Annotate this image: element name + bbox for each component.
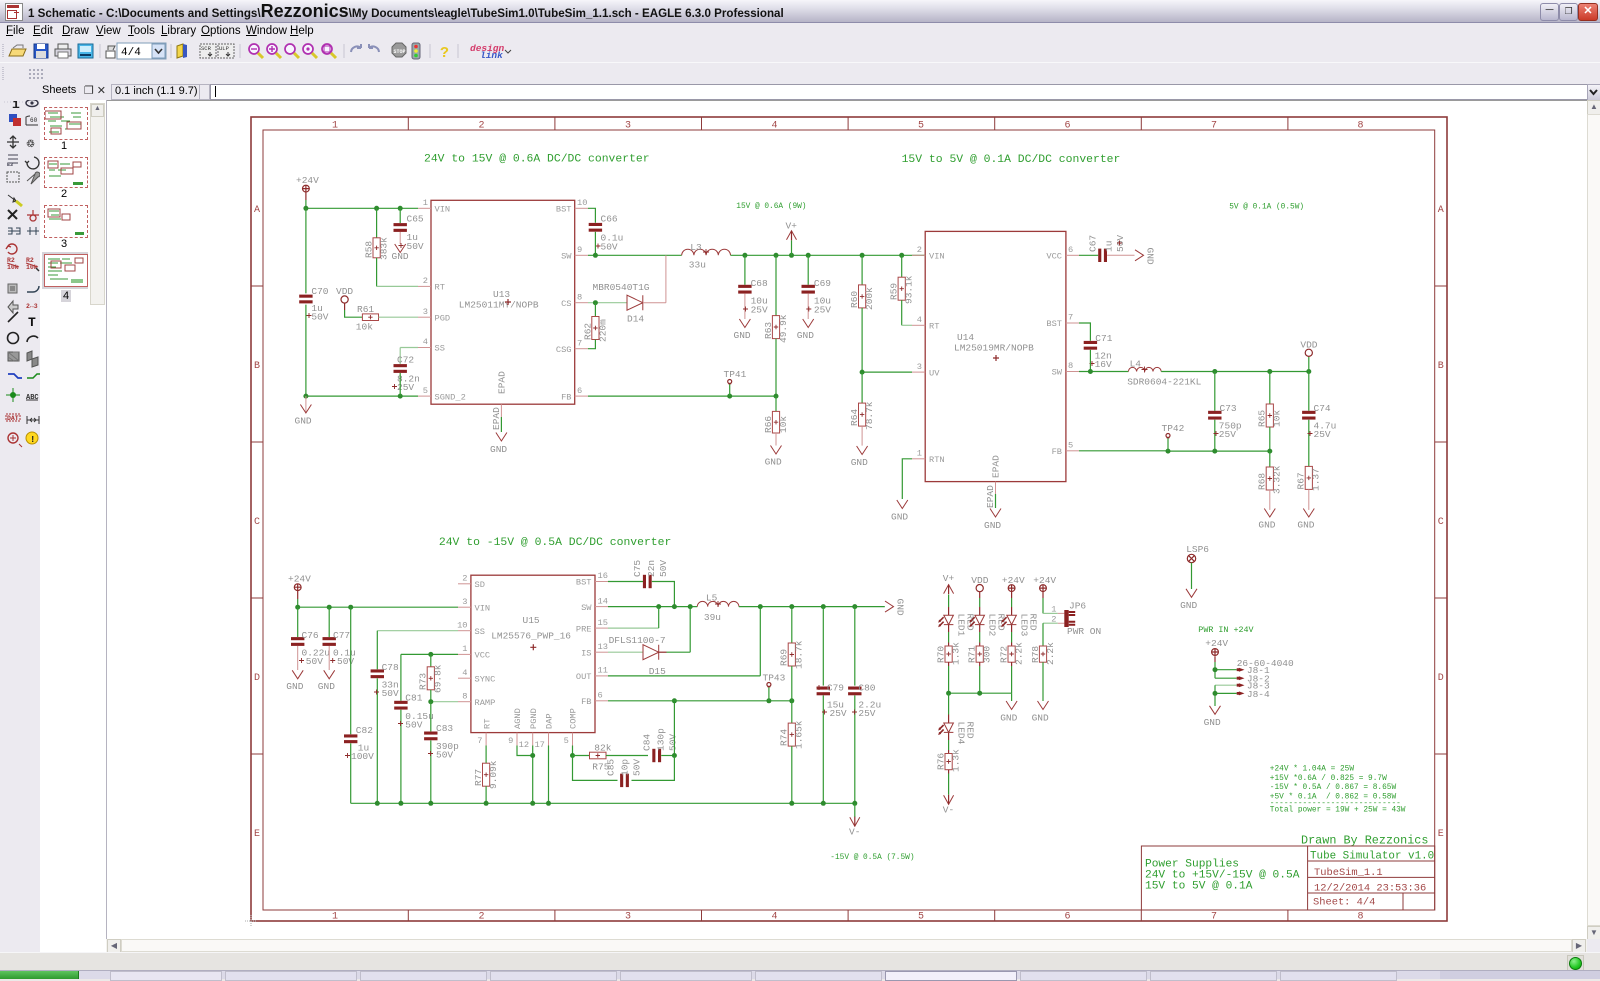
pin 1 VCC (U15): [458, 644, 490, 661]
svg-text:TP43: TP43: [763, 673, 786, 684]
svg-text:12: 12: [519, 740, 529, 750]
svg-text:3.32k: 3.32k: [1272, 465, 1283, 494]
resistor R75: [573, 743, 612, 773]
svg-text:VCC: VCC: [475, 651, 491, 661]
supply V+ (LED1): [943, 573, 955, 607]
svg-text:B: B: [1438, 361, 1444, 372]
wire SW line (U15): [608, 606, 697, 608]
pin 2 SD (U15): [458, 574, 485, 591]
pin 10 SS (U15): [457, 620, 485, 637]
svg-text:EPAD: EPAD: [985, 485, 996, 508]
wire +24V rail: [306, 200, 418, 208]
svg-text:100V: 100V: [351, 751, 374, 762]
svg-text:GND: GND: [1032, 713, 1049, 724]
wire C66 to SW rail: [594, 232, 596, 256]
svg-text:33u: 33u: [689, 260, 706, 271]
svg-text:EPAD: EPAD: [991, 455, 1002, 478]
wire RAMP line: [431, 701, 458, 703]
resistor R64: [849, 372, 875, 446]
svg-text:LM25019MR/NOPB: LM25019MR/NOPB: [954, 343, 1034, 354]
capacitor C66: [589, 214, 624, 253]
svg-text:OUT: OUT: [576, 672, 592, 682]
svg-text:2: 2: [478, 121, 484, 132]
frame column numbers top: [332, 121, 1364, 132]
svg-text:50V: 50V: [632, 759, 643, 776]
svg-text:R64: R64: [849, 409, 860, 426]
svg-text:C85: C85: [606, 759, 617, 776]
frame row ticks left: [251, 286, 263, 754]
svg-text:17: 17: [534, 740, 544, 750]
wire bottom rail (section 3): [351, 802, 855, 804]
diode D15 DFLS1100-7: [608, 607, 690, 677]
svg-text:C78: C78: [382, 662, 399, 673]
supply VDD (5V rail): [1300, 340, 1317, 372]
ground GND (R68): [1258, 509, 1275, 531]
svg-text:VDD: VDD: [1300, 340, 1317, 351]
svg-text:R67: R67: [1296, 472, 1307, 489]
wire VCC line to C81: [401, 654, 458, 700]
svg-text:50V: 50V: [311, 312, 328, 323]
svg-text:B: B: [254, 361, 260, 372]
svg-text:R74: R74: [779, 729, 790, 746]
svg-text:50V: 50V: [405, 720, 422, 731]
svg-text:3: 3: [423, 307, 428, 317]
svg-text:93.1k: 93.1k: [904, 275, 915, 304]
pin 3 VIN (U15): [458, 597, 490, 614]
svg-text:1u: 1u: [1104, 241, 1115, 252]
svg-text:C79: C79: [827, 683, 844, 694]
inductor L3: [682, 242, 731, 271]
supply +24V (PWR IN): [1205, 638, 1228, 662]
svg-text:5: 5: [564, 736, 569, 746]
frame row letters left: [254, 205, 260, 840]
inductor L5: [697, 593, 739, 624]
svg-text:3: 3: [625, 121, 631, 132]
svg-text:R69: R69: [779, 649, 790, 666]
svg-text:L3: L3: [690, 242, 702, 253]
svg-text:16: 16: [598, 571, 608, 581]
svg-text:?: ?: [440, 45, 449, 62]
frame inner border: [263, 130, 1435, 910]
svg-text:FB: FB: [1052, 447, 1062, 457]
svg-text:24V to -15V @ 0.5A DC/DC conve: 24V to -15V @ 0.5A DC/DC converter: [439, 537, 671, 549]
wire C72 to bottom rail: [399, 373, 401, 396]
svg-text:FB: FB: [561, 393, 571, 403]
wire PRE to SW: [608, 627, 659, 629]
svg-text:25V: 25V: [814, 304, 831, 315]
wire 15V rail after L3: [731, 254, 926, 256]
svg-text:+15V *0.6A / 0.825 = 9.7W: +15V *0.6A / 0.825 = 9.7W: [1270, 775, 1387, 783]
svg-text:GND: GND: [984, 520, 1001, 531]
svg-text:-15V @ 0.5A (7.5W): -15V @ 0.5A (7.5W): [830, 854, 914, 862]
pin 1 VIN: [418, 198, 450, 215]
svg-text:9: 9: [577, 245, 582, 255]
svg-text:2.2k: 2.2k: [1045, 642, 1056, 665]
resistor R62: [582, 303, 608, 349]
wire 5V rail: [1161, 371, 1309, 373]
resistor R58: [364, 208, 390, 286]
wire EPAD to gnd: [500, 417, 502, 432]
svg-text:11: 11: [598, 666, 608, 676]
pin 7 CSG: [556, 339, 588, 356]
svg-text:1.3k: 1.3k: [951, 642, 962, 665]
pin 5 COMP (U15 bottom): [564, 708, 579, 746]
pin 15 PRE (U15): [576, 618, 608, 635]
svg-text:EPAD: EPAD: [491, 407, 502, 430]
svg-text:1.65k: 1.65k: [794, 720, 805, 749]
svg-text:LSP6: LSP6: [1186, 544, 1209, 555]
svg-text:60: 60: [30, 117, 38, 124]
svg-text:RAMP: RAMP: [475, 698, 496, 708]
resistor R60: [849, 255, 875, 372]
svg-text:TubeSim_1.1: TubeSim_1.1: [1314, 867, 1383, 879]
supply +24V (section 1): [296, 175, 319, 200]
wire OUT to rail: [608, 607, 760, 676]
svg-text:+24V: +24V: [1205, 638, 1228, 649]
svg-text:GND: GND: [765, 457, 782, 468]
frame row ticks right: [1435, 286, 1447, 754]
svg-text:15V to 5V @ 0.1A DC/DC convert: 15V to 5V @ 0.1A DC/DC converter: [902, 154, 1121, 166]
pin 12 PGND (U15 bottom): [519, 708, 539, 750]
svg-text:10: 10: [457, 620, 467, 630]
resistor R65: [1257, 372, 1283, 452]
toolbar row 2: [0, 62, 1600, 85]
svg-text:R78: R78: [1030, 646, 1041, 663]
pin 11 OUT (U15): [576, 666, 608, 683]
svg-text:R62: R62: [582, 323, 593, 340]
solder pad LSP6: [1186, 544, 1209, 589]
title bar: [0, 0, 1600, 23]
pin 6 FB: [561, 386, 588, 403]
svg-text:2: 2: [917, 245, 922, 255]
svg-text:2↔3: 2↔3: [26, 303, 38, 310]
svg-text:ABC: ABC: [26, 394, 39, 402]
capacitor C68: [738, 255, 768, 319]
svg-text:R72: R72: [999, 646, 1010, 663]
svg-text:25V: 25V: [830, 708, 847, 719]
svg-text:50V: 50V: [382, 688, 399, 699]
svg-text:E: E: [1438, 829, 1444, 840]
frame column numbers bottom: [332, 912, 1364, 923]
svg-text:E3: E3: [7, 162, 13, 168]
svg-text:VCC: VCC: [1046, 252, 1062, 262]
pin 2 VIN (U14): [912, 245, 945, 262]
svg-text:PWR IN +24V: PWR IN +24V: [1198, 625, 1253, 635]
svg-text:4: 4: [423, 337, 428, 347]
svg-text:SS: SS: [475, 627, 485, 637]
svg-text:C73: C73: [1220, 403, 1237, 414]
svg-text:9.09k: 9.09k: [488, 760, 499, 789]
svg-text:69.8k: 69.8k: [433, 664, 444, 693]
svg-text:C66: C66: [601, 214, 618, 225]
svg-text:GND: GND: [734, 330, 751, 341]
svg-text:15: 15: [598, 618, 608, 628]
svg-text:4: 4: [771, 121, 777, 132]
supply V+ (15V rail): [786, 221, 798, 256]
wire SW to L4: [1079, 371, 1128, 373]
svg-text:GND: GND: [1204, 717, 1221, 728]
pin 8 SW (U14): [1052, 361, 1079, 378]
capacitor C72: [392, 355, 420, 394]
svg-text:R61: R61: [357, 304, 374, 315]
supply +24V (section 3): [288, 574, 311, 600]
svg-text:R70: R70: [936, 646, 947, 663]
origin cross mark: [245, 915, 257, 927]
svg-text:9: 9: [508, 736, 513, 746]
svg-text:7: 7: [1211, 121, 1217, 132]
svg-text:T: T: [28, 315, 36, 330]
ground GND (R66): [765, 446, 782, 468]
svg-text:BST: BST: [556, 205, 572, 215]
svg-text:!: !: [30, 435, 35, 445]
supply V- (LED4): [943, 795, 954, 816]
pin 6 VCC (U14): [1046, 245, 1079, 262]
svg-text:14: 14: [598, 596, 608, 606]
svg-text:GND: GND: [797, 330, 814, 341]
svg-text:SW: SW: [561, 252, 572, 262]
svg-text:10p: 10p: [620, 759, 631, 776]
svg-text:50V: 50V: [436, 750, 453, 761]
svg-text:2: 2: [423, 276, 428, 286]
svg-text:TP42: TP42: [1162, 423, 1185, 434]
capacitor C75 (horizontal): [632, 560, 669, 589]
svg-text:50V: 50V: [407, 241, 424, 252]
wire COMP down: [572, 746, 574, 756]
sheets panel: [40, 100, 107, 952]
svg-text:C: C: [1438, 517, 1444, 528]
wire DAP down: [548, 746, 550, 804]
svg-text:220m: 220m: [597, 319, 608, 342]
LED LED1: [939, 607, 975, 637]
wire UV line: [862, 371, 912, 373]
frame outer border: [251, 117, 1447, 921]
svg-text:4: 4: [771, 912, 777, 923]
svg-text:RT: RT: [482, 719, 492, 729]
svg-text:39u: 39u: [704, 612, 721, 623]
ground GND (LSP6): [1180, 589, 1197, 611]
svg-text:PRE: PRE: [576, 624, 592, 634]
svg-text:R66: R66: [763, 416, 774, 433]
capacitor C85 (horizontal): [606, 759, 643, 788]
resistor R67: [1296, 466, 1322, 510]
svg-text:♲: ♲: [26, 139, 35, 151]
svg-text:C71: C71: [1095, 333, 1112, 344]
svg-text:GND: GND: [392, 251, 409, 262]
wire SS to C78: [377, 630, 458, 632]
wire JP6 pin 2 to R78: [1043, 622, 1058, 624]
svg-text:50V: 50V: [337, 656, 354, 667]
svg-text:+24V: +24V: [288, 574, 311, 585]
capacitor C73: [1208, 372, 1242, 452]
svg-text:VIN: VIN: [475, 603, 491, 613]
svg-text:2: 2: [478, 912, 484, 923]
svg-text:+24V: +24V: [1033, 575, 1056, 586]
svg-text:AGND: AGND: [513, 708, 523, 729]
connector JP6: [1051, 601, 1101, 638]
resistor R69: [779, 607, 805, 701]
svg-text:JP6: JP6: [1069, 601, 1086, 612]
resistor R74: [779, 701, 805, 804]
wire bottom rail: [306, 395, 418, 397]
svg-text:R76: R76: [936, 753, 947, 770]
test point TP41: [724, 369, 747, 396]
pin 8 RAMP (U15): [458, 691, 495, 708]
svg-text:RTN: RTN: [929, 455, 945, 465]
svg-text:RT: RT: [435, 283, 445, 293]
svg-text:GND: GND: [295, 416, 312, 427]
test point TP42: [1162, 423, 1185, 451]
svg-text:C67: C67: [1088, 235, 1099, 252]
svg-text:300: 300: [982, 646, 993, 663]
ground GND (C69): [797, 319, 814, 341]
svg-text:5: 5: [1068, 441, 1073, 451]
wire BST to C66: [588, 208, 595, 223]
wire compensation lower branch: [573, 756, 675, 781]
svg-text:2: 2: [462, 574, 467, 584]
svg-text:49.9k: 49.9k: [778, 314, 789, 343]
svg-text:C82: C82: [356, 725, 373, 736]
svg-text:C65: C65: [407, 214, 424, 225]
svg-text:VDD: VDD: [971, 575, 988, 586]
svg-text:GND: GND: [1000, 713, 1017, 724]
svg-text:GND: GND: [1180, 600, 1197, 611]
svg-text:+24V: +24V: [1002, 575, 1025, 586]
svg-text:3: 3: [462, 597, 467, 607]
svg-text:25V: 25V: [858, 708, 875, 719]
svg-text:GND: GND: [895, 599, 906, 616]
svg-text:V+: V+: [786, 221, 798, 232]
svg-text:R59: R59: [889, 283, 900, 300]
svg-text:8: 8: [1357, 912, 1363, 923]
capacitor C67 (horizontal): [1079, 235, 1135, 262]
svg-text:50V: 50V: [601, 241, 618, 252]
resistor R70: [936, 632, 962, 693]
svg-text:D: D: [254, 673, 260, 684]
svg-text:R68: R68: [1257, 473, 1268, 490]
pin 7 RT (U15 bottom): [477, 719, 492, 746]
capacitor C78: [371, 631, 399, 804]
resistor R73: [418, 654, 444, 701]
wire VDD to R61: [345, 310, 363, 317]
op-amp U15 IC body: [471, 575, 595, 732]
svg-text:VIN: VIN: [929, 252, 945, 262]
capacitor C74: [1302, 372, 1336, 467]
svg-text:D14: D14: [627, 314, 644, 325]
svg-text:i: i: [12, 100, 20, 112]
ground GND (R78): [1032, 701, 1049, 724]
svg-text:link: link: [480, 50, 503, 61]
supply +24V (LED3): [1002, 575, 1025, 598]
svg-text:Total power = 19W + 25W = 43W: Total power = 19W + 25W = 43W: [1270, 806, 1406, 814]
svg-text:4: 4: [462, 668, 467, 678]
wire RTN to gnd: [902, 459, 912, 499]
svg-text:1: 1: [423, 198, 428, 208]
frame row letters right: [1438, 205, 1444, 840]
capacitor C69: [802, 255, 832, 319]
svg-text:6: 6: [1064, 121, 1070, 132]
ground GND (LED bus): [1000, 701, 1017, 724]
pin EPAD stub (U14): [995, 482, 997, 494]
svg-text:25V: 25V: [1314, 429, 1331, 440]
supply VDD (LED2): [971, 575, 988, 598]
pin 10 BST: [556, 198, 588, 215]
svg-text:2.2k: 2.2k: [1014, 642, 1025, 665]
svg-text:PGND: PGND: [529, 708, 539, 729]
toolbar row 1: [0, 40, 1600, 62]
ground GND (R64): [851, 446, 868, 468]
svg-text:C74: C74: [1314, 403, 1331, 414]
svg-text:L5: L5: [706, 593, 718, 604]
svg-text:U13: U13: [493, 289, 510, 300]
svg-text:R77: R77: [473, 769, 484, 786]
pin 6 FB (U15): [581, 691, 608, 708]
resistor R63: [763, 255, 789, 396]
svg-text:1: 1: [462, 644, 467, 654]
taskbar: [0, 970, 1600, 979]
ground GND (rail, pointing right): [885, 599, 906, 616]
capacitor C76: [291, 607, 330, 670]
svg-text:BST: BST: [576, 578, 592, 588]
wire R61 to PGD: [379, 316, 419, 318]
svg-text:DFLS1100-7: DFLS1100-7: [609, 635, 666, 646]
svg-text:V-: V-: [849, 827, 860, 838]
svg-text:Tube Simulator v1.0: Tube Simulator v1.0: [1310, 850, 1434, 862]
pin 1 RTN (U14): [912, 449, 945, 466]
svg-text:7: 7: [1211, 912, 1217, 923]
svg-text:24V to 15V @ 0.6A DC/DC conver: 24V to 15V @ 0.6A DC/DC converter: [424, 154, 650, 166]
svg-text:C80: C80: [858, 683, 875, 694]
svg-text:1: 1: [332, 121, 338, 132]
svg-text:A: A: [254, 205, 260, 216]
pin 13 IS (U15): [581, 642, 608, 659]
svg-text:SS: SS: [435, 344, 445, 354]
diode D14 MBR0540T1G: [588, 255, 666, 324]
pin 7 BST (U14): [1046, 313, 1079, 330]
svg-text:ULP: ULP: [219, 45, 229, 52]
supply +24V (JP6): [1033, 575, 1056, 598]
op-amp U13 IC body: [431, 200, 575, 430]
resistor R78: [1030, 642, 1056, 701]
svg-text:15V to 5V @ 0.1A: 15V to 5V @ 0.1A: [1145, 880, 1253, 892]
wire R59 to RT (U14): [902, 324, 912, 326]
svg-text:R63: R63: [763, 322, 774, 339]
wire C70 branch: [305, 208, 307, 396]
svg-text:GND: GND: [490, 444, 507, 455]
svg-text:10k: 10k: [1272, 410, 1283, 427]
svg-text:BST: BST: [1046, 319, 1062, 329]
svg-text:J8-4: J8-4: [1247, 689, 1270, 700]
svg-text:C70: C70: [311, 286, 328, 297]
svg-text:LM25576_PWP_16: LM25576_PWP_16: [491, 631, 571, 642]
svg-text:1: 1: [917, 449, 922, 459]
svg-text:GND: GND: [1145, 248, 1156, 265]
wire +24V rail (section 3): [298, 599, 458, 607]
capacitor C83: [424, 702, 459, 804]
frame column ticks top: [408, 117, 1288, 130]
title block description text: [1145, 859, 1300, 893]
svg-text:FB: FB: [581, 697, 591, 707]
svg-text:GND: GND: [318, 681, 335, 692]
svg-text:5: 5: [918, 912, 924, 923]
resistor R71: [967, 632, 993, 693]
capacitor C82: [344, 607, 374, 803]
svg-text:50V: 50V: [658, 560, 669, 577]
ground GND (C67, pointing right): [1135, 248, 1156, 265]
canvas background: [106, 100, 1588, 940]
svg-text:SGND_2: SGND_2: [435, 393, 466, 403]
svg-text:VIN: VIN: [435, 205, 451, 215]
pin 4 SYNC (U15): [458, 668, 495, 685]
